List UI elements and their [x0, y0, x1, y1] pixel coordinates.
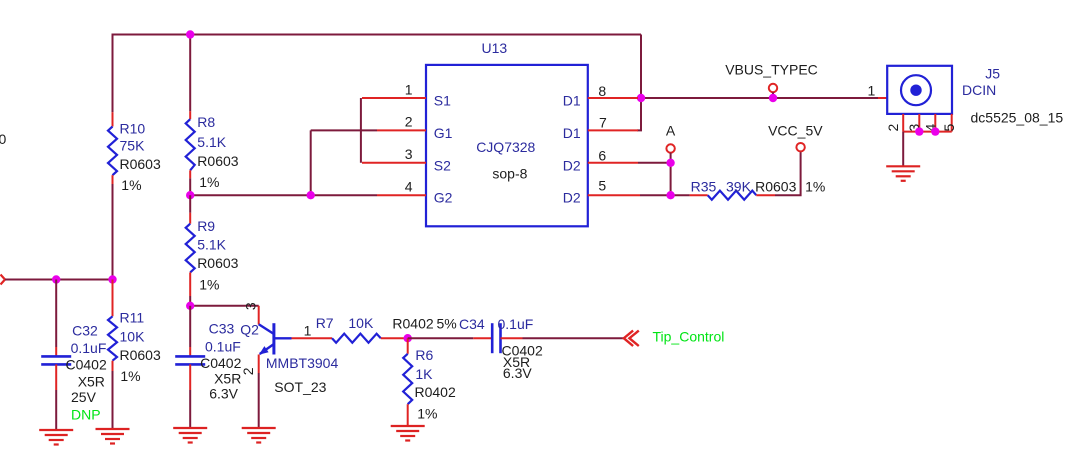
- svg-text:1%: 1%: [417, 405, 437, 421]
- svg-text:5.1K: 5.1K: [197, 134, 226, 150]
- wire R9 bottom: [189, 296, 191, 306]
- svg-text:U13: U13: [482, 40, 508, 56]
- wire G1 vertical: [310, 130, 312, 195]
- svg-text:R8: R8: [197, 114, 215, 130]
- svg-text:6.3V: 6.3V: [209, 386, 238, 402]
- svg-text:J5: J5: [985, 66, 1000, 82]
- svg-text:G1: G1: [434, 125, 453, 141]
- svg-text:0.1uF: 0.1uF: [71, 340, 107, 356]
- wire R10 bottom: [112, 184, 114, 280]
- svg-text:3: 3: [243, 302, 259, 310]
- node junction R9 C33 Q2: [186, 302, 194, 310]
- resistor R11: [108, 280, 117, 372]
- capacitor C33: [175, 347, 205, 390]
- wire pin8 to J5: [641, 97, 878, 99]
- svg-text:C0402: C0402: [66, 357, 107, 373]
- pin 5 D2: [588, 194, 640, 196]
- svg-text:C34: C34: [459, 316, 485, 332]
- wire C32 stem: [55, 280, 57, 348]
- svg-text:6: 6: [598, 147, 606, 163]
- resistor R10: [108, 112, 117, 184]
- svg-text:5%: 5%: [437, 315, 457, 331]
- op IC U13 body: [426, 65, 588, 226]
- off-sheet arrow left: [1, 275, 6, 285]
- svg-text:S2: S2: [434, 157, 451, 173]
- connector J5 pin1 stub: [878, 97, 887, 99]
- svg-text:R0402: R0402: [392, 315, 433, 331]
- svg-text:10K: 10K: [348, 315, 374, 331]
- pin 7 D1: [588, 129, 638, 131]
- pin 8 D1: [588, 97, 638, 99]
- svg-text:R0402: R0402: [415, 384, 456, 400]
- svg-text:R0603: R0603: [197, 255, 238, 271]
- wire right vertical to pin7: [637, 35, 641, 131]
- wire C33 stem: [189, 306, 191, 347]
- svg-text:R10: R10: [120, 121, 146, 137]
- wire S1 S2 vertical: [360, 98, 362, 163]
- svg-text:R7: R7: [316, 315, 334, 331]
- svg-text:R0603: R0603: [197, 153, 238, 169]
- svg-text:D2: D2: [563, 157, 581, 173]
- node junction R7 R6 C34: [404, 334, 412, 342]
- node junction J5 pin4: [931, 127, 939, 135]
- svg-text:S1: S1: [434, 93, 451, 109]
- svg-text:10K: 10K: [120, 328, 146, 344]
- node junction top rail R8: [186, 30, 194, 38]
- port arrow Tip_Control: [624, 331, 639, 346]
- svg-text:75K: 75K: [120, 137, 146, 153]
- wire R35 to VCC corner: [775, 151, 801, 195]
- capacitor C32: [41, 347, 71, 390]
- pin 6 D2: [588, 162, 638, 164]
- wire G2 net horizontal: [190, 194, 377, 196]
- wire R9 to Q2 collector: [190, 305, 259, 307]
- svg-text:2: 2: [405, 114, 413, 130]
- svg-text:7: 7: [599, 115, 607, 131]
- svg-text:C32: C32: [72, 323, 98, 339]
- svg-text:R6: R6: [415, 347, 433, 363]
- wire R8 top branch: [189, 35, 191, 112]
- pin 1 S1: [362, 97, 426, 99]
- svg-text:DCIN: DCIN: [962, 82, 996, 98]
- svg-text:X5R: X5R: [78, 373, 105, 389]
- wire R7 to C34: [408, 337, 474, 339]
- svg-text:Tip_Control: Tip_Control: [653, 328, 725, 344]
- node junction VBUS wire: [769, 94, 777, 102]
- svg-text:G2: G2: [434, 190, 453, 206]
- resistor R6: [403, 338, 412, 426]
- node junction pin6 A: [666, 159, 674, 167]
- power port VCC_5V: [796, 143, 804, 151]
- svg-text:X5R: X5R: [214, 370, 241, 386]
- wire A vertical: [670, 163, 672, 195]
- svg-text:5: 5: [598, 178, 606, 194]
- wire C34 to Tip_Control: [523, 337, 624, 339]
- svg-text:0: 0: [0, 131, 7, 147]
- ground R6: [391, 426, 425, 441]
- wire Q2 emitter to ground: [258, 373, 260, 428]
- wire C33 to ground: [189, 390, 191, 428]
- wire R9 top lead: [189, 195, 191, 213]
- svg-text:R0603: R0603: [120, 347, 161, 363]
- svg-text:A: A: [666, 123, 676, 139]
- svg-text:R0603: R0603: [755, 178, 796, 194]
- svg-text:R35: R35: [691, 178, 717, 194]
- transistor Q2: [259, 306, 292, 373]
- resistor R8: [186, 111, 195, 178]
- node junction G1 G2: [307, 191, 315, 199]
- node junction R8 R9: [186, 191, 194, 199]
- svg-text:Q2: Q2: [240, 321, 259, 337]
- svg-text:8: 8: [598, 83, 606, 99]
- svg-text:25V: 25V: [71, 389, 97, 405]
- svg-text:R9: R9: [197, 218, 215, 234]
- svg-text:1%: 1%: [121, 177, 141, 193]
- wire top rail: [113, 35, 642, 113]
- svg-text:MMBT3904: MMBT3904: [266, 355, 339, 371]
- node junction C32 tap: [52, 275, 60, 283]
- svg-text:C0402: C0402: [200, 355, 241, 371]
- svg-text:C33: C33: [209, 320, 235, 336]
- svg-text:5: 5: [941, 123, 957, 131]
- wire J5 to ground: [902, 132, 904, 167]
- svg-text:3: 3: [405, 146, 413, 162]
- svg-text:dc5525_08_15: dc5525_08_15: [971, 110, 1064, 126]
- svg-text:D1: D1: [563, 93, 581, 109]
- node junction pin5 R35: [666, 191, 674, 199]
- svg-text:1K: 1K: [415, 366, 433, 382]
- wire bottom rail: [5, 279, 113, 281]
- svg-text:1%: 1%: [805, 178, 825, 194]
- svg-text:0.1uF: 0.1uF: [498, 316, 534, 332]
- power port A: [666, 144, 674, 163]
- svg-text:1%: 1%: [199, 174, 219, 190]
- svg-text:DNP: DNP: [71, 406, 101, 422]
- svg-text:R0603: R0603: [120, 156, 161, 172]
- svg-text:SOT_23: SOT_23: [274, 379, 326, 395]
- ground Q2: [242, 428, 276, 443]
- svg-text:4: 4: [405, 179, 413, 195]
- svg-text:2: 2: [240, 367, 256, 375]
- svg-text:VCC_5V: VCC_5V: [768, 123, 823, 139]
- svg-text:0.1uF: 0.1uF: [205, 339, 241, 355]
- power port VBUS_TYPEC: [769, 84, 777, 98]
- svg-text:1: 1: [304, 323, 312, 339]
- wire G1 horizontal: [311, 129, 377, 131]
- ground R11: [96, 429, 130, 444]
- svg-text:1: 1: [405, 81, 413, 97]
- node junction R10 R11: [108, 275, 116, 283]
- wire pin5 to R35: [640, 194, 690, 196]
- pin 2 G1: [377, 129, 426, 131]
- ground C32: [39, 430, 73, 445]
- svg-text:1%: 1%: [199, 276, 219, 292]
- svg-text:sop-8: sop-8: [492, 166, 527, 182]
- svg-text:2: 2: [885, 123, 901, 131]
- ground C33: [173, 428, 207, 443]
- wire C32 to ground: [55, 390, 57, 430]
- svg-text:5.1K: 5.1K: [197, 237, 226, 253]
- resistor R35: [690, 191, 775, 200]
- node junction pin8 vertical: [637, 94, 645, 102]
- pin 3 S2: [362, 162, 426, 164]
- wire pin6 to A: [638, 162, 671, 164]
- svg-text:D2: D2: [563, 190, 581, 206]
- resistor R9: [186, 213, 195, 296]
- wire R8 bottom to junction: [189, 178, 191, 195]
- svg-text:1%: 1%: [120, 368, 140, 384]
- svg-text:CJQ7328: CJQ7328: [476, 139, 535, 155]
- svg-text:6.3V: 6.3V: [503, 365, 532, 381]
- ground J5: [886, 166, 920, 181]
- wire R11 to ground: [112, 371, 114, 429]
- svg-text:VBUS_TYPEC: VBUS_TYPEC: [725, 62, 818, 78]
- capacitor C34: [473, 323, 522, 353]
- svg-text:D1: D1: [563, 125, 581, 141]
- connector J5 body: [887, 66, 952, 114]
- svg-text:R11: R11: [120, 310, 145, 326]
- svg-text:1: 1: [868, 83, 876, 99]
- svg-text:39K: 39K: [726, 178, 752, 194]
- node junction J5 pin3: [915, 127, 923, 135]
- pin 4 G2: [377, 194, 426, 196]
- resistor R7: [292, 334, 408, 343]
- connector J5 bottom pins: [903, 114, 952, 132]
